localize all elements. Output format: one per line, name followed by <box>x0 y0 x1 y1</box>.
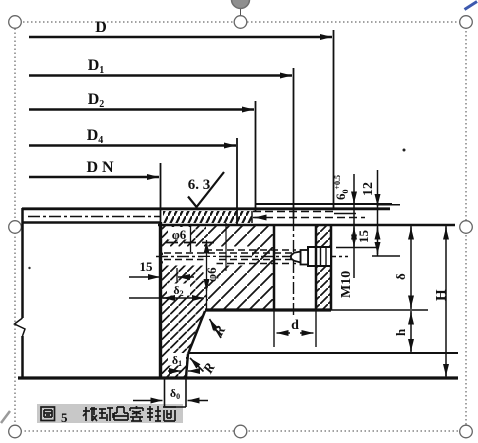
caption figure tu <box>41 407 55 421</box>
delta2 pad <box>167 284 190 296</box>
svg-text:δ: δ <box>393 273 408 280</box>
lining strip right edge <box>251 211 253 223</box>
flange outer edge x331 <box>330 225 333 310</box>
bolt centerline dash-dot <box>293 219 295 317</box>
phi6 label 2 pad <box>204 257 217 281</box>
hidden hole line bottom inner <box>164 259 296 261</box>
left pipe edge lower <box>21 336 24 378</box>
hidden line y211 <box>253 211 334 213</box>
rotation handle knob <box>232 0 250 9</box>
handle bottom-left <box>9 425 22 438</box>
label M10 <box>339 271 354 298</box>
phi6 label 2 rotated <box>204 267 219 282</box>
raised face top line <box>255 203 392 205</box>
pipe bottom line y378 <box>18 376 458 379</box>
delta0 tab right <box>185 378 187 407</box>
dimension D2 <box>29 108 254 111</box>
dim delta <box>410 226 412 309</box>
hidden hole line top inner <box>164 252 296 254</box>
dim H <box>445 226 447 377</box>
lining leg hatch <box>161 310 205 377</box>
ink speck right <box>403 149 406 152</box>
svg-text:D N: D N <box>86 159 114 176</box>
dimension DN <box>29 176 159 179</box>
dim h <box>410 311 412 352</box>
plug nose <box>291 252 301 263</box>
pipe inner wall line <box>22 221 161 224</box>
phi6 hole line <box>190 224 192 252</box>
line y213 right <box>334 213 356 215</box>
label 12 <box>361 182 376 196</box>
hidden line y217 <box>253 217 365 219</box>
extension line D <box>333 30 335 210</box>
x316 through plug <box>315 247 318 266</box>
break zigzag <box>15 318 26 336</box>
svg-text:D: D <box>95 19 107 36</box>
delta1 arrows <box>168 370 181 372</box>
dimension D <box>29 36 332 39</box>
y256 extension <box>372 255 400 257</box>
extension line D1 <box>293 68 295 219</box>
dim delta2 line <box>129 297 204 299</box>
delta1 pad <box>168 353 186 365</box>
dimension D1 <box>29 74 292 77</box>
caption char tu2 <box>114 407 128 420</box>
svg-text:5: 5 <box>61 410 68 425</box>
svg-text:M10: M10 <box>339 271 354 298</box>
extension line DN <box>160 163 162 222</box>
phi6 vertical line <box>206 240 208 309</box>
phi6 label 1 pad <box>168 227 190 240</box>
left pipe edge vertical <box>21 208 24 318</box>
lining leg slant edge <box>188 311 205 354</box>
caption char feng <box>147 406 161 421</box>
roughness symbol <box>188 172 224 207</box>
handle bottom-mid <box>234 425 247 438</box>
handle mid-right <box>460 221 473 234</box>
dimension D4 <box>29 144 236 147</box>
svg-text:12: 12 <box>361 182 376 196</box>
rotation handle stem <box>240 7 242 16</box>
hidden hole line top outer <box>205 249 296 251</box>
bore edge vertical <box>159 222 162 378</box>
handle mid-left <box>9 221 22 234</box>
label 15 vertical <box>356 230 371 244</box>
faint line x226 <box>225 223 227 271</box>
12-dim top extension tick <box>377 204 400 206</box>
pipe centerline dash-dot <box>28 216 161 218</box>
delta0 tab bottom <box>165 406 187 408</box>
plug mid step <box>301 250 309 265</box>
bolt hole left edge <box>273 225 276 310</box>
ink speck left <box>28 267 30 269</box>
handle top-right <box>460 16 473 29</box>
flange bottom face <box>205 308 331 311</box>
R1 label <box>211 323 229 339</box>
R1 leader <box>210 319 222 338</box>
dim 6 line A <box>353 174 355 278</box>
hole band clear <box>163 247 252 266</box>
label 6 0 +0.5 <box>333 175 350 200</box>
flange section hatch right <box>316 225 331 247</box>
svg-text:h: h <box>393 328 408 336</box>
lining strip hatch <box>163 211 252 223</box>
bolt hole right edge <box>315 225 318 310</box>
lining leg lower edge <box>186 354 188 377</box>
svg-text:d: d <box>291 318 299 333</box>
handle top-left <box>9 16 22 29</box>
caption highlight <box>37 404 183 423</box>
tick x177 <box>176 268 178 281</box>
R2 label <box>200 361 218 377</box>
hidden hole line bottom outer <box>205 263 296 265</box>
M10 plug body <box>308 247 331 266</box>
caption char mian <box>163 407 176 421</box>
extension line D2 <box>255 101 257 212</box>
flange top face <box>158 224 455 227</box>
arrow at lining strip end <box>255 217 267 219</box>
hub bottom line y353 <box>188 352 458 354</box>
R2 leader <box>190 358 204 372</box>
handle top-mid <box>234 16 247 29</box>
svg-text:15: 15 <box>356 230 371 244</box>
svg-text:φ6: φ6 <box>172 227 187 242</box>
dim d arrows <box>277 332 291 334</box>
lining body hatch <box>161 225 206 310</box>
svg-text:6. 3: 6. 3 <box>188 177 211 193</box>
hole centerline dash-dot <box>156 256 348 258</box>
plug body threads <box>320 247 322 266</box>
gray mark bottom-left edge <box>1 411 10 423</box>
hidden dash y242 <box>166 242 218 244</box>
extension line D4 <box>236 138 238 225</box>
blue cursor mark top-right <box>465 2 478 10</box>
hole top extension line <box>336 247 376 249</box>
delta0 tab left <box>164 378 166 407</box>
handle bottom-right <box>460 425 473 438</box>
flange section hatch left <box>206 225 274 310</box>
svg-text:H: H <box>434 289 450 301</box>
dim 15 left line <box>129 276 160 278</box>
delta0 arrows <box>133 400 163 402</box>
svg-text:15: 15 <box>140 259 154 274</box>
pipe top outer line <box>22 207 390 210</box>
caption char mi <box>130 406 143 421</box>
caption char chen <box>83 407 97 421</box>
dim 12 line B <box>377 170 379 256</box>
caption char huan <box>99 408 113 421</box>
